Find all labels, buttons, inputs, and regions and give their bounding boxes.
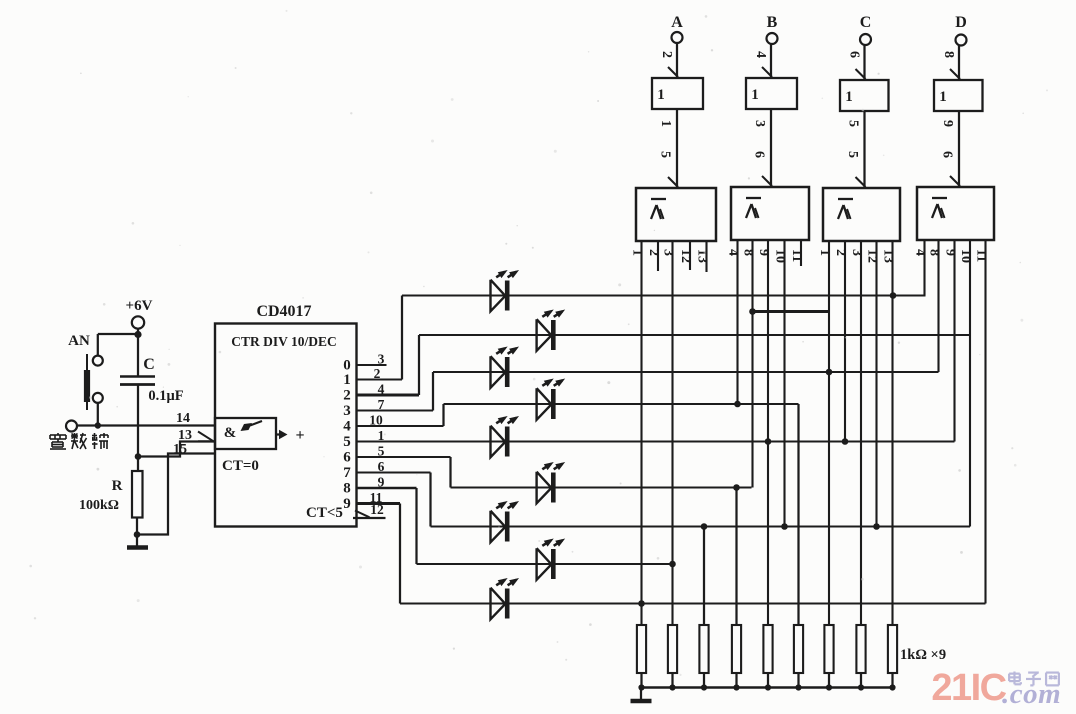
svg-text:5: 5 <box>845 151 860 158</box>
svg-text:3: 3 <box>378 352 385 367</box>
svg-text:8: 8 <box>343 481 351 497</box>
svg-text:13: 13 <box>178 428 192 443</box>
svg-text:2: 2 <box>659 51 674 58</box>
svg-text:A: A <box>671 14 683 31</box>
svg-text:11: 11 <box>789 249 804 262</box>
svg-text:5: 5 <box>846 120 861 127</box>
svg-text:9: 9 <box>756 249 771 256</box>
svg-text:4: 4 <box>343 419 351 435</box>
svg-text:1: 1 <box>939 89 947 105</box>
svg-text:4: 4 <box>913 249 928 256</box>
svg-text:3: 3 <box>752 120 767 127</box>
svg-text:13: 13 <box>881 249 896 263</box>
svg-text:2: 2 <box>343 388 351 404</box>
svg-text:1: 1 <box>658 120 673 127</box>
svg-text:3: 3 <box>849 249 864 256</box>
svg-text:13: 13 <box>695 249 710 263</box>
svg-text:100kΩ: 100kΩ <box>79 498 119 513</box>
svg-text:R: R <box>112 478 123 494</box>
svg-text:8: 8 <box>941 51 956 58</box>
svg-text:9: 9 <box>343 496 351 512</box>
svg-text:15: 15 <box>173 442 187 457</box>
svg-text:9: 9 <box>940 120 955 127</box>
svg-text:+: + <box>295 427 304 444</box>
svg-text:5: 5 <box>343 434 351 450</box>
svg-text:21IC: 21IC <box>931 667 1006 709</box>
svg-text:14: 14 <box>176 411 190 426</box>
svg-text:+6V: +6V <box>126 298 153 314</box>
svg-text:C: C <box>143 356 155 373</box>
svg-text:12: 12 <box>370 502 384 517</box>
svg-text:1: 1 <box>630 249 645 256</box>
svg-text:7: 7 <box>343 465 351 481</box>
svg-text:6: 6 <box>343 450 351 466</box>
svg-text:AN: AN <box>68 333 90 349</box>
svg-text:D: D <box>955 14 967 31</box>
svg-text:10: 10 <box>958 249 973 263</box>
svg-text:B: B <box>767 14 778 31</box>
svg-text:4: 4 <box>726 249 741 256</box>
svg-text:1: 1 <box>845 89 853 105</box>
svg-text:C: C <box>860 14 872 31</box>
svg-text:CT<5: CT<5 <box>306 505 343 521</box>
svg-text:6: 6 <box>752 151 767 158</box>
svg-text:1: 1 <box>657 87 665 103</box>
svg-text:8: 8 <box>741 249 756 256</box>
svg-text:7: 7 <box>378 397 385 412</box>
svg-text:3: 3 <box>661 249 676 256</box>
svg-text:4: 4 <box>753 51 768 58</box>
svg-text:CT=0: CT=0 <box>222 458 259 474</box>
svg-text:6: 6 <box>940 151 955 158</box>
svg-text:6: 6 <box>378 459 385 474</box>
svg-text:9: 9 <box>378 475 385 490</box>
svg-text:6: 6 <box>847 51 862 58</box>
svg-text:10: 10 <box>773 249 788 263</box>
svg-text:1: 1 <box>343 372 351 388</box>
svg-text:12: 12 <box>678 249 693 263</box>
svg-text:1: 1 <box>751 87 759 103</box>
svg-text:4: 4 <box>378 382 385 397</box>
svg-text:0.1μF: 0.1μF <box>148 388 183 404</box>
svg-text:2: 2 <box>833 249 848 256</box>
svg-text:11: 11 <box>974 249 989 262</box>
svg-text:12: 12 <box>865 249 880 263</box>
svg-text:8: 8 <box>927 249 942 256</box>
svg-text:2: 2 <box>374 366 381 381</box>
svg-text:&: & <box>224 425 237 441</box>
svg-text:9: 9 <box>943 249 958 256</box>
svg-text:CTR DIV 10/DEC: CTR DIV 10/DEC <box>231 334 337 349</box>
svg-text:10: 10 <box>369 413 383 428</box>
svg-text:2: 2 <box>646 249 661 256</box>
svg-text:1: 1 <box>817 249 832 256</box>
svg-text:CD4017: CD4017 <box>256 303 311 320</box>
svg-text:5: 5 <box>658 151 673 158</box>
svg-text:1kΩ ×9: 1kΩ ×9 <box>900 647 946 663</box>
svg-text:3: 3 <box>343 403 351 419</box>
svg-text:.com: .com <box>1002 678 1061 710</box>
svg-text:5: 5 <box>378 444 385 459</box>
